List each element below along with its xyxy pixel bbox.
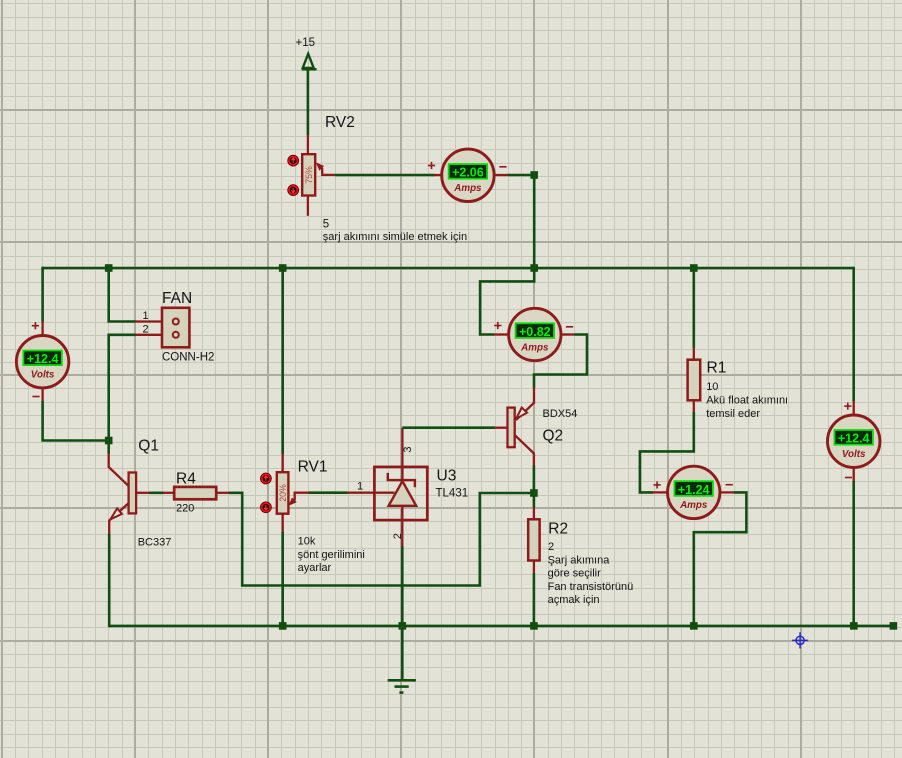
svg-text:CONN-H2: CONN-H2	[162, 352, 214, 364]
svg-text:R1: R1	[707, 360, 727, 377]
svg-text:10: 10	[706, 381, 718, 393]
svg-text:Volts: Volts	[31, 370, 55, 381]
wire node to R2	[533, 493, 536, 507]
svg-text:1: 1	[142, 310, 148, 322]
svg-text:Q1: Q1	[138, 438, 159, 455]
A3 plus sign	[654, 481, 661, 488]
wire bus to FAN pin1	[109, 268, 136, 322]
svg-text:5: 5	[323, 219, 329, 231]
svg-text:Fan transistörünü: Fan transistörünü	[548, 581, 634, 593]
svg-text:75%: 75%	[304, 166, 314, 184]
shunt regulator U3 TL431	[374, 467, 427, 520]
RV2 decrement button	[288, 185, 299, 196]
svg-text:+15: +15	[296, 37, 316, 49]
svg-text:açmak için: açmak için	[548, 594, 600, 606]
node top bus a2	[530, 264, 538, 272]
wire A2 to Q2 emitter	[534, 335, 587, 388]
svg-text:TL431: TL431	[436, 488, 469, 500]
ammeter A3 +1.24	[668, 466, 720, 518]
svg-text:BC337: BC337	[138, 537, 172, 549]
wire V1 to node Q1	[43, 401, 109, 441]
svg-text:2: 2	[548, 541, 554, 553]
wire bus to A2	[480, 268, 534, 335]
svg-text:göre seçilir: göre seçilir	[548, 568, 602, 580]
wire bus to RV1 top	[281, 268, 284, 454]
node top bus r1	[690, 264, 698, 272]
node bus gnd	[399, 622, 407, 630]
svg-text:Volts: Volts	[842, 449, 866, 460]
potentiometer RV2	[302, 135, 315, 216]
svg-text:+12.4: +12.4	[27, 352, 59, 366]
resistor R4 220	[163, 487, 229, 499]
node top bus fan	[105, 264, 113, 272]
svg-text:Akü float akımını: Akü float akımını	[706, 395, 788, 407]
V1 plus sign	[32, 322, 39, 329]
connector FAN CONN-H2	[162, 308, 189, 348]
node Q2 R2	[530, 489, 538, 497]
ammeter A1 +2.06	[442, 149, 494, 201]
V2 pins	[853, 401, 855, 481]
wire Q2 collector to node	[533, 466, 536, 494]
svg-text:20%: 20%	[278, 484, 288, 502]
wire A1 to node	[508, 174, 534, 177]
svg-text:10k: 10k	[298, 536, 316, 548]
A1 plus sign	[428, 162, 435, 169]
svg-text:+1.24: +1.24	[678, 483, 710, 497]
transistor Q2 BDX54	[495, 388, 535, 466]
ammeter A2 +0.82	[509, 308, 561, 360]
RV1 wiper	[288, 493, 308, 506]
A2 plus sign	[494, 322, 501, 329]
resistor R2	[528, 507, 539, 573]
resistor R1 10	[688, 348, 701, 413]
V1 minus sign	[32, 396, 39, 398]
A3 pins	[653, 491, 734, 493]
svg-text:2: 2	[142, 323, 148, 335]
wire bus to ground	[401, 626, 404, 680]
V2 plus sign	[844, 403, 851, 410]
svg-text:3: 3	[402, 446, 414, 452]
svg-text:R2: R2	[548, 521, 568, 538]
svg-text:Amps: Amps	[679, 500, 708, 511]
node bus rv1	[279, 622, 287, 630]
svg-text:1: 1	[357, 481, 363, 493]
transistor Q1 BC337	[109, 453, 150, 534]
wire +15 to RV2	[307, 69, 310, 135]
svg-text:temsil eder: temsil eder	[706, 408, 760, 420]
voltmeter V1 +12.4	[16, 336, 68, 388]
wire bottom bus	[109, 625, 897, 628]
wire RV1 to bus	[281, 532, 284, 626]
wire node to Q1	[107, 441, 110, 454]
svg-text:+12.4: +12.4	[838, 432, 870, 446]
ground	[388, 680, 416, 692]
svg-text:U3: U3	[437, 467, 457, 484]
wire bus to R1	[692, 268, 695, 348]
svg-text:şönt gerilimini: şönt gerilimini	[298, 549, 365, 561]
wire U3 pin3 to Q2 base	[402, 426, 494, 429]
svg-text:FAN: FAN	[162, 290, 192, 307]
svg-text:R4: R4	[176, 471, 196, 488]
svg-text:Amps: Amps	[453, 183, 482, 194]
svg-text:RV2: RV2	[325, 114, 355, 131]
A2 pins	[494, 333, 575, 335]
node Q1 collector	[105, 437, 113, 445]
V2 minus sign	[845, 477, 852, 479]
wire top bus	[43, 267, 854, 270]
svg-text:+2.06: +2.06	[452, 166, 484, 180]
RV2 wiper	[316, 162, 335, 175]
power terminal +15	[302, 54, 317, 70]
voltmeter V2 +12.4	[828, 415, 880, 467]
wire R2 to bus	[533, 573, 536, 626]
svg-text:+0.82: +0.82	[519, 325, 551, 339]
RV1 increment button	[261, 473, 272, 484]
U3 pin1 lead	[348, 492, 395, 494]
A1 minus sign	[499, 166, 506, 168]
wire RV1 wiper to U3	[309, 491, 348, 494]
svg-text:Şarj akımına: Şarj akımına	[548, 554, 611, 566]
V1 pins	[41, 322, 43, 402]
U3 pin2 lead	[401, 520, 403, 547]
ammeter A1 pins	[434, 174, 508, 176]
svg-text:Amps: Amps	[520, 342, 549, 353]
connector FAN pins	[135, 322, 162, 335]
node A1 out	[530, 171, 538, 179]
wire bus to V2	[852, 267, 855, 402]
wire node down to bus	[533, 175, 536, 268]
wire U3 pin2 to bus	[401, 546, 404, 626]
wire R4 to Q2 node	[229, 493, 534, 586]
potentiometer RV1	[277, 454, 289, 533]
svg-text:Q2: Q2	[543, 428, 564, 445]
U3 pin3 lead	[401, 428, 403, 468]
svg-text:ayarlar: ayarlar	[298, 562, 332, 574]
RV2 increment button	[288, 155, 299, 166]
wire R1 to A3	[640, 412, 694, 492]
A2 minus sign	[566, 326, 573, 328]
wire RV2 wiper to A1	[335, 174, 435, 177]
svg-text:BDX54: BDX54	[543, 408, 578, 420]
wire FAN pin2 to node	[109, 335, 136, 441]
node bus a3	[690, 622, 698, 630]
RV1 decrement button	[261, 502, 272, 513]
svg-text:şarj akımını simüle etmek için: şarj akımını simüle etmek için	[323, 231, 467, 243]
svg-text:RV1: RV1	[298, 459, 328, 476]
origin marker	[792, 632, 808, 648]
A3 minus sign	[726, 484, 733, 486]
wire A3 to bus	[694, 492, 747, 626]
node bus r2	[530, 622, 538, 630]
wire Q1 emitter to bus	[108, 534, 111, 627]
wire bus to V1	[41, 267, 44, 322]
node bus v2	[850, 622, 858, 630]
wire Q1 base to R4	[149, 491, 163, 494]
svg-text:220: 220	[176, 503, 194, 515]
wire V2 to bus	[852, 481, 855, 626]
node top bus rv1	[279, 264, 287, 272]
svg-text:2: 2	[392, 533, 404, 539]
terminal bus end	[890, 622, 898, 630]
